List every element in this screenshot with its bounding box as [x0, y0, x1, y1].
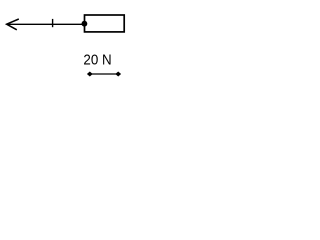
arrowhead left tip	[7, 19, 19, 30]
node dot	[82, 21, 88, 27]
tick mark	[52, 19, 54, 27]
scale arrow left diamond	[87, 71, 93, 76]
scale arrow line	[89, 73, 119, 75]
scale arrow right diamond	[115, 71, 121, 76]
background	[0, 0, 142, 88]
wire force line	[7, 23, 84, 25]
rectangle block	[85, 15, 125, 32]
svg-text:20 N: 20 N	[83, 51, 111, 68]
